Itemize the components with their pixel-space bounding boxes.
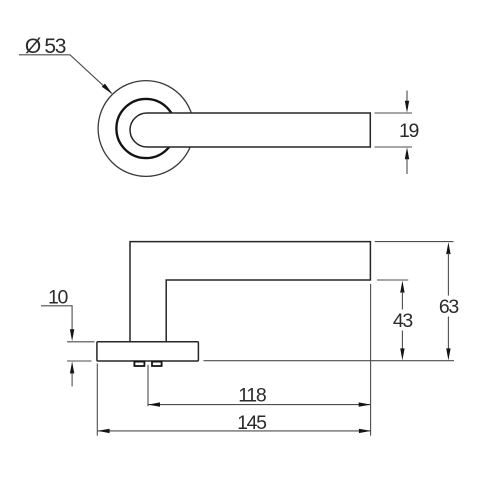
arrow up to lever underside (43 dim): [400, 281, 404, 293]
arrow down to rose bottom plane (43 dim): [400, 348, 404, 360]
label Ø53: [25, 35, 66, 58]
dimension line 63 upper part: [447, 253, 449, 296]
extension line lever top (63 dim): [375, 241, 454, 243]
arrow down to rose top (10 dim): [70, 329, 74, 341]
dimension line 43 upper part: [401, 292, 403, 310]
extension line rose bottom left (10 dim): [67, 360, 92, 362]
dimension line 145: [98, 430, 371, 432]
extension line rose bottom right (43/63 dims): [204, 360, 455, 362]
lever handle profile (side view): [130, 242, 370, 342]
arrow down to rose bottom plane (63 dim): [446, 348, 450, 360]
arrow right (145 dim): [359, 429, 371, 433]
dimension line 43 lower part: [401, 331, 403, 350]
leader line for 10: [41, 306, 72, 330]
arrow left (145 dim): [98, 429, 110, 433]
leader line for Ø53: [19, 55, 112, 93]
extension line lever underside (43 dim): [377, 279, 408, 281]
screw head left: [134, 362, 144, 366]
extension line bottom (19 dim): [375, 146, 413, 148]
lever handle bar (top view): [130, 113, 370, 147]
extension line spindle centre (118 dim): [147, 365, 149, 406]
dimension text 43: [393, 310, 413, 332]
arrow right (118 dim): [359, 402, 371, 406]
extension line top (19 dim): [375, 112, 413, 114]
dimension line 10 lower tail: [71, 373, 73, 387]
dimension text 19: [399, 120, 419, 142]
arrow up to lever bottom (19 dim): [405, 147, 409, 159]
dimension line 63 lower part: [447, 317, 449, 350]
arrow up to lever top (63 dim): [446, 242, 450, 254]
svg-text:19: 19: [399, 120, 419, 142]
handle neck circle (top view, thick): [116, 99, 175, 158]
dimension text 118: [238, 385, 266, 407]
svg-text:63: 63: [439, 296, 459, 318]
dimension line 19 lower tail: [406, 159, 408, 175]
extension line rose top left (10 dim): [67, 341, 95, 343]
dimension line 19 upper tail: [406, 91, 408, 102]
screw head right: [152, 362, 162, 366]
svg-text:43: 43: [393, 310, 413, 332]
svg-text:118: 118: [238, 385, 266, 407]
arrow up to rose bottom (10 dim): [70, 362, 74, 374]
dimension text 63: [439, 296, 459, 318]
extension line lever end (118/145 dims): [370, 284, 372, 436]
leader arrowhead on rose circle: [102, 84, 113, 95]
extension line rose left edge (145 dim): [96, 364, 98, 436]
dimension line 118: [148, 404, 371, 406]
dimension text 10: [48, 287, 69, 309]
svg-text:10: 10: [48, 287, 69, 309]
rose outer circle (top view): [98, 81, 194, 177]
svg-text:145: 145: [237, 412, 267, 434]
arrow left (118 dim): [148, 402, 160, 406]
dimension text 145: [237, 412, 267, 434]
rose plate (side view): [97, 342, 198, 361]
arrow down to lever top (19 dim): [405, 101, 409, 113]
